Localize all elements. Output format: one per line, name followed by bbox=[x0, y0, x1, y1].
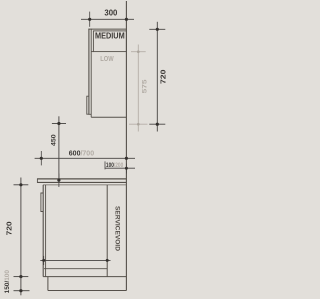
svg-text:LOW: LOW bbox=[100, 56, 114, 63]
svg-text:600/700: 600/700 bbox=[69, 148, 94, 157]
floor line bbox=[48, 290, 127, 292]
svg-text:SERVICEVOID: SERVICEVOID bbox=[114, 206, 121, 252]
plinth front bbox=[47, 277, 49, 291]
wall cabinet bottom edge bbox=[91, 116, 126, 118]
base cabinet bottom shelf bbox=[44, 268, 107, 270]
wall cabinet door outer line bbox=[88, 29, 90, 115]
dimension 720 right bbox=[149, 22, 165, 132]
base cabinet side bottom line bbox=[43, 276, 126, 278]
dimension 720 left bbox=[14, 178, 29, 277]
base cabinet back partition bbox=[106, 185, 108, 277]
svg-text:720: 720 bbox=[6, 221, 13, 235]
svg-text:100/200: 100/200 bbox=[106, 162, 124, 169]
worktop bottom line bbox=[37, 181, 126, 183]
dimension 575 (light) bbox=[129, 45, 148, 132]
MEDIUM box bottom extension to door bbox=[91, 51, 93, 53]
svg-text:720: 720 bbox=[160, 69, 167, 84]
worktop underside line bbox=[43, 184, 126, 186]
dimension 450 bbox=[52, 116, 66, 187]
base cabinet handle bbox=[41, 193, 43, 212]
svg-text:450: 450 bbox=[50, 134, 57, 146]
worktop left end bbox=[36, 178, 38, 183]
dimension 600/700 bbox=[35, 151, 135, 165]
base cabinet door inner line bbox=[45, 185, 47, 277]
svg-text:575: 575 bbox=[142, 79, 149, 93]
base cabinet door outer line bbox=[42, 185, 44, 277]
svg-text:150/100: 150/100 bbox=[4, 269, 11, 293]
wall cabinet door inner line bbox=[90, 29, 92, 118]
MEDIUM zone box bbox=[93, 31, 126, 52]
svg-text:300: 300 bbox=[104, 8, 118, 17]
wall cabinet top edge bbox=[88, 28, 126, 30]
worktop top line bbox=[37, 178, 126, 180]
wall cabinet door bottom step bbox=[88, 113, 91, 115]
dimension 100/200 bbox=[105, 161, 135, 173]
svg-text:MEDIUM: MEDIUM bbox=[95, 32, 125, 41]
dimension 300 bbox=[81, 12, 134, 27]
dimension 150/100 bbox=[14, 277, 30, 296]
wall cabinet handle bbox=[87, 96, 89, 114]
wire wall line right bbox=[125, 1, 127, 291]
dimension base width (unlabeled) bbox=[40, 256, 110, 265]
